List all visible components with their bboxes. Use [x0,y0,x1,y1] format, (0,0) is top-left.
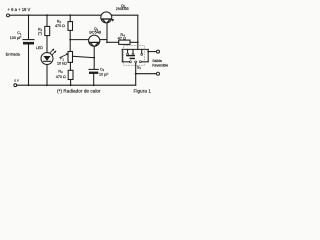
svg-text:Reversible: Reversible [152,63,168,67]
svg-text:47 Ω: 47 Ω [118,36,126,41]
svg-text:470 Ω: 470 Ω [56,75,66,79]
svg-text:LED: LED [36,46,44,50]
resistor R2 [68,22,73,31]
wire R4 right lead [130,41,138,43]
node R3 bottom [70,84,72,86]
wire switch feed line [122,48,148,50]
switch S1 bottom pole [130,58,135,60]
wire R2 bottom lead [69,30,71,39]
capacitor C1 [23,39,34,41]
wire node to P1 [69,40,71,52]
wire R1 to LED [46,36,48,53]
wire R1 top lead [46,15,48,26]
dashed box S1 [124,46,145,66]
resistor R3 [68,70,73,79]
svg-text:BC548: BC548 [89,30,101,35]
svg-text:Figura 1: Figura 1 [134,88,152,93]
svg-text:10 kΩ: 10 kΩ [57,62,67,66]
capacitor C2 [89,68,98,70]
wire Q1 emitter right [100,39,107,41]
resistor R4 [119,40,130,44]
svg-text:(*): (*) [38,31,42,35]
input terminal + [7,14,10,17]
Q2 emitter arrow [112,19,115,22]
wire Q2 emitter down right side [137,15,139,49]
switch S1 top pole [127,49,129,53]
wire node to Q1 [70,39,89,41]
wire switch left drop [121,49,123,61]
wire LED bottom lead [46,65,48,86]
wire node to R4 [107,41,119,43]
output terminal [157,50,160,53]
wire node to C2 [93,58,95,69]
wire P1 wiper to Q1 base [73,56,95,57]
potentiometer P1 [68,52,73,63]
wire top rail right of Q2 [112,14,138,16]
wire Q2 base down [106,23,108,43]
svg-text:10 µF: 10 µF [99,72,109,76]
node output [147,51,149,53]
wire bottom pole right [142,61,149,63]
wire top rail left [10,14,101,16]
wire R2 top lead [69,15,71,21]
wire C1 bottom lead [28,45,30,86]
wire P1 to R3 [69,62,71,70]
wire bottom pole left [122,61,129,63]
node LED bottom [46,84,48,86]
svg-text:Entrada: Entrada [6,51,21,56]
wire S1 common to 0V rail [135,63,137,85]
wire C2 bottom lead [93,74,95,85]
wire R3 bottom lead [70,80,72,86]
wire output vertical [147,49,149,61]
wire bottom rail [17,84,136,86]
node C1 top [28,14,30,16]
node R2 bottom [69,39,71,41]
transistor Q2 [101,12,112,23]
node R1 top [46,14,48,16]
svg-text:+ 6 a + 18 V: + 6 a + 18 V [8,7,31,12]
output terminal 2 [157,72,160,75]
LED [41,53,53,65]
transistor Q1 [89,35,100,46]
svg-text:S1: S1 [137,66,141,71]
node Q2 base R4 [106,41,108,43]
node output 2 [135,73,137,75]
svg-text:100 µF: 100 µF [10,36,22,40]
resistor R1 [45,26,50,35]
wire to output terminal [148,51,156,53]
node Q1 base wiper [93,57,95,59]
wire Q1 base down [93,46,95,58]
wire to output terminal 2 [136,73,157,75]
node R2 top [69,14,71,16]
0V terminal [14,84,17,87]
svg-text:(*) Radiador de calor: (*) Radiador de calor [57,88,101,93]
node R4 right [137,41,139,43]
node C2 bottom [93,84,95,86]
svg-text:470 Ω: 470 Ω [55,24,65,28]
node C1 bottom [28,84,30,86]
wire C1 top lead [28,15,30,39]
svg-text:2N3055: 2N3055 [116,7,129,11]
